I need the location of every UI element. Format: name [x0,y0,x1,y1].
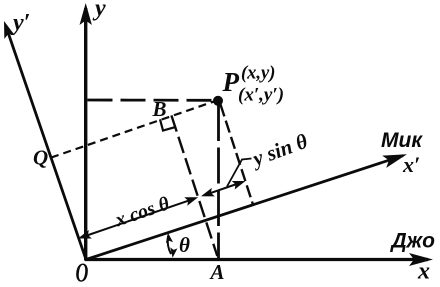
svg-text:x: x [417,259,430,285]
svg-text:θ: θ [179,233,190,257]
svg-text:A: A [209,260,225,284]
svg-text:x′: x′ [402,152,420,177]
svg-text:Мик: Мик [381,129,423,152]
svg-text:y: y [92,0,106,22]
svg-text:Джо: Джо [390,230,436,253]
svg-text:(x′,y′): (x′,y′) [238,85,284,106]
svg-text:Q: Q [33,146,48,170]
svg-text:(x,y): (x,y) [241,64,275,84]
svg-text:O: O [76,258,89,287]
svg-text:y′: y′ [10,10,30,36]
svg-text:P: P [222,67,240,97]
svg-text:B: B [152,97,167,121]
